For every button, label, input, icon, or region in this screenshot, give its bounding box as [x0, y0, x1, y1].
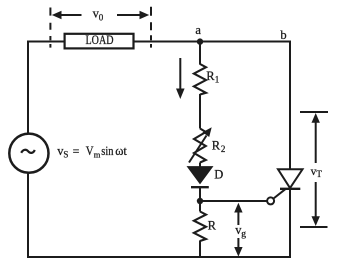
wire left vertical upper [27, 41, 29, 134]
dashed line right (v0 measurement) [150, 7, 152, 48]
wire top from load to node a to corner b [134, 41, 290, 43]
wire diode to junction to R [199, 187, 201, 212]
wire R2 to diode [199, 163, 201, 168]
AC source vs [9, 134, 48, 173]
wire top from source to load [27, 41, 64, 43]
measurement vT bottom bar [300, 226, 328, 228]
svg-text:=: = [73, 144, 80, 158]
resistor R1 [194, 64, 206, 95]
svg-text:T: T [316, 169, 322, 179]
svg-text:R: R [208, 218, 217, 232]
diode D [188, 167, 213, 188]
svg-text:ωt: ωt [115, 144, 127, 158]
svg-text:2: 2 [221, 144, 226, 154]
wire branch a to R1 [199, 42, 201, 65]
svg-text:sin: sin [101, 144, 114, 158]
wire R1 to R2 [199, 94, 201, 129]
svg-text:b: b [280, 28, 286, 42]
load box LOAD [65, 33, 134, 49]
wire right vertical lower (cathode) [289, 189, 291, 258]
arrow v0 right [117, 11, 149, 19]
current arrow into branch [176, 58, 185, 99]
svg-text:LOAD: LOAD [86, 33, 114, 47]
measurement vT top bar [300, 111, 328, 113]
wire R to bottom [199, 241, 201, 258]
wire gate diagonal to thyristor [274, 189, 286, 198]
measurement vg double arrow [234, 203, 242, 257]
svg-text:g: g [241, 229, 246, 239]
resistor R2 (variable) [189, 127, 212, 162]
svg-text:S: S [63, 150, 68, 160]
svg-text:m: m [94, 150, 101, 160]
thyristor gate terminal circle [267, 197, 274, 204]
svg-text:V: V [86, 144, 94, 158]
node a dot [197, 38, 203, 44]
svg-text:1: 1 [215, 75, 220, 85]
thyristor T [278, 169, 303, 189]
svg-text:R: R [212, 138, 221, 152]
measurement vT double arrow [312, 113, 320, 226]
junction node dot [197, 198, 203, 204]
wire right vertical upper (anode) [289, 41, 291, 171]
arrow v0 left [52, 11, 82, 19]
svg-text:a: a [195, 23, 201, 37]
wire gate horizontal [200, 200, 267, 202]
resistor R [194, 212, 206, 242]
wire bottom [27, 256, 291, 258]
dashed line left (v0 measurement) [49, 8, 51, 48]
svg-text:D: D [214, 167, 223, 181]
svg-text:0: 0 [99, 12, 104, 22]
wire left vertical lower [27, 173, 29, 257]
